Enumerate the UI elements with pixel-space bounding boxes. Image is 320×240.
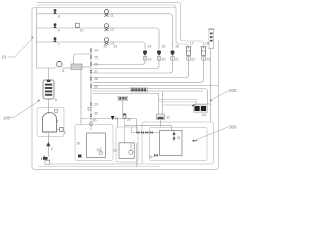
valve 3	[57, 128, 67, 136]
bottom row line	[81, 118, 136, 120]
column tick	[88, 108, 91, 111]
motor valve 12	[104, 24, 114, 32]
svg-text:20: 20	[162, 58, 166, 62]
wire bus vertical	[36, 8, 38, 69]
svg-text:35: 35	[127, 118, 131, 122]
wire exchanger top	[74, 54, 92, 64]
tank 4	[43, 110, 59, 132]
column valve lower	[90, 103, 98, 107]
svg-text:11: 11	[110, 14, 114, 18]
outer border	[32, 8, 218, 170]
svg-text:30: 30	[93, 119, 97, 123]
column valve 25	[90, 56, 98, 60]
svg-text:14: 14	[148, 45, 152, 49]
column valve 24	[90, 49, 98, 53]
label 10 left	[2, 36, 34, 59]
enclosure right inner	[150, 127, 208, 160]
valve 10	[76, 23, 84, 32]
valve 7	[53, 37, 60, 46]
tank 30 left	[77, 133, 106, 158]
motor valve 11	[104, 10, 113, 18]
svg-text:32: 32	[166, 116, 170, 120]
wire right bus	[93, 85, 219, 87]
enclosure tank4	[37, 108, 64, 137]
column valve 29	[90, 85, 98, 89]
wire valve outlets nest	[93, 56, 146, 65]
svg-text:19: 19	[148, 58, 152, 62]
valve 17	[186, 41, 195, 61]
svg-text:18: 18	[205, 41, 209, 45]
riser pipes to boiler	[159, 91, 194, 127]
column valve 28	[90, 77, 98, 81]
svg-text:25: 25	[94, 56, 98, 60]
enclosure inlet tick	[90, 123, 93, 126]
pump 200 unit	[192, 104, 208, 117]
svg-text:22: 22	[191, 58, 195, 62]
label sanby	[131, 88, 148, 93]
svg-text:100: 100	[3, 116, 11, 121]
svg-text:28: 28	[94, 77, 98, 81]
svg-text:24: 24	[94, 49, 98, 53]
motor valve 13	[104, 38, 114, 46]
column valve 30	[90, 114, 97, 122]
label 200	[210, 88, 238, 102]
wire tank down	[48, 132, 50, 157]
bottom pump dark 31	[111, 116, 119, 121]
enclosure right outer	[142, 122, 214, 164]
wire exchanger to column	[82, 66, 91, 68]
svg-text:29: 29	[94, 85, 98, 89]
svg-text:31: 31	[177, 136, 181, 140]
svg-text:17: 17	[190, 41, 194, 45]
faucet 1	[41, 156, 50, 165]
valve 16	[171, 45, 180, 62]
thermo box	[118, 96, 128, 118]
svg-text:33: 33	[113, 149, 117, 153]
valve 18	[201, 41, 210, 61]
wire pipe2	[37, 28, 160, 49]
wire bottom2	[38, 166, 160, 168]
svg-text:21: 21	[175, 58, 179, 62]
svg-text:5: 5	[55, 98, 57, 102]
svg-text:4: 4	[56, 119, 58, 123]
svg-text:15: 15	[162, 45, 166, 49]
wire module feed	[48, 68, 50, 80]
wire top line B	[37, 5, 189, 49]
svg-text:300: 300	[229, 125, 237, 130]
wire module to tank	[48, 99, 50, 114]
svg-text:10: 10	[80, 29, 84, 33]
valve 15	[157, 45, 166, 62]
wires bottom right	[117, 104, 210, 167]
wire top line A	[37, 2, 204, 49]
svg-text:16: 16	[175, 45, 179, 49]
valve 8	[53, 9, 60, 18]
svg-text:23: 23	[114, 45, 118, 49]
column valve 26	[90, 62, 98, 66]
pump 6	[57, 61, 65, 73]
svg-text:29: 29	[94, 103, 98, 107]
suction pipe band	[159, 99, 197, 104]
label 100 left	[3, 99, 40, 120]
svg-text:36: 36	[94, 112, 98, 116]
valve 9	[53, 23, 60, 32]
svg-text:12: 12	[110, 28, 114, 32]
membrane module 5	[43, 80, 57, 102]
tank right	[149, 131, 194, 160]
svg-text:200: 200	[229, 88, 237, 93]
wire pump line	[37, 67, 57, 69]
enclosure left tanks	[75, 125, 113, 161]
valve 14	[143, 45, 152, 62]
heat exchanger block	[71, 64, 82, 70]
wire bottom	[50, 163, 143, 165]
svg-text:26: 26	[94, 62, 98, 66]
wire pipe3	[37, 42, 146, 49]
svg-text:27: 27	[94, 70, 98, 74]
label 300	[195, 125, 238, 142]
svg-text:30: 30	[77, 142, 81, 146]
arrow 2	[46, 142, 54, 151]
svg-text:30: 30	[149, 155, 153, 159]
column valve 27	[90, 70, 98, 74]
junction bowties	[131, 127, 160, 134]
svg-text:20: 20	[104, 45, 108, 49]
riser component	[157, 114, 171, 120]
wire exchanger down	[80, 70, 82, 126]
svg-text:10: 10	[2, 55, 7, 60]
svg-text:31: 31	[115, 117, 119, 121]
wire column vertical	[90, 49, 92, 130]
tank mid	[113, 143, 134, 159]
svg-text:23: 23	[206, 58, 210, 62]
bottom valve 35	[123, 114, 131, 122]
enclosure mid tank	[116, 127, 138, 162]
svg-text:6: 6	[62, 69, 64, 73]
wire pipe1	[37, 14, 173, 49]
filter column device	[208, 29, 214, 123]
svg-text:101: 101	[202, 113, 208, 117]
